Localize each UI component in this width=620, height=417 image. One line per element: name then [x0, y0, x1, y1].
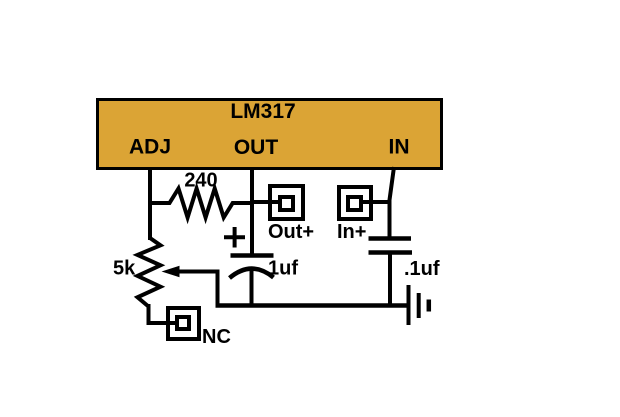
svg-text:OUT: OUT — [234, 136, 279, 159]
capacitor C2 .1uf bottom plate — [369, 250, 413, 255]
svg-text:In+: In+ — [337, 221, 366, 243]
ground symbol — [409, 285, 429, 325]
wire C1 bottom lead — [250, 269, 254, 306]
wire bottom rail — [216, 303, 409, 308]
capacitor C2 .1uf top plate — [369, 236, 412, 241]
svg-text:ADJ: ADJ — [129, 136, 171, 159]
svg-text:1uf: 1uf — [268, 258, 298, 280]
wire C2 bottom lead — [388, 253, 392, 307]
capacitor C1 1uf curved plate — [230, 269, 274, 278]
wiper arrow wire — [178, 272, 218, 307]
wire OUT pin vertical — [250, 167, 254, 256]
svg-text:Out+: Out+ — [268, 221, 314, 243]
svg-text:IN: IN — [389, 136, 410, 159]
wire pot bottom to NC pad — [149, 304, 178, 323]
wire IN pin slanted — [390, 167, 395, 239]
potentiometer R2 5k zigzag — [138, 238, 161, 307]
pad In+ — [339, 187, 371, 219]
pad Out+ — [270, 186, 303, 219]
wire stub to Out+ pad — [252, 200, 281, 204]
pad NC — [168, 308, 199, 339]
svg-text:LM317: LM317 — [230, 100, 295, 123]
svg-text:5k: 5k — [113, 258, 136, 280]
wire stub to In+ pad — [361, 200, 390, 204]
wiper arrow head — [162, 266, 180, 277]
resistor R1 240 zigzag — [150, 189, 252, 218]
wire ADJ pin vertical — [148, 167, 152, 240]
regulator U1 LM317 body — [98, 100, 442, 169]
capacitor C1 plus sign — [224, 227, 245, 248]
svg-text:240: 240 — [184, 170, 217, 192]
svg-text:.1uf: .1uf — [404, 258, 440, 280]
svg-text:NC: NC — [202, 326, 231, 348]
capacitor C1 1uf top plate — [231, 253, 274, 258]
